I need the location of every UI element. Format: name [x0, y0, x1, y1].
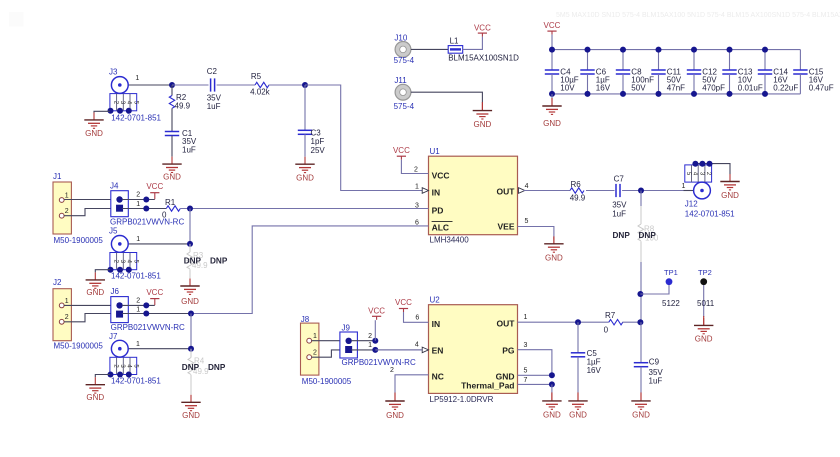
- ground (C5): [568, 393, 587, 409]
- junction J3 gnd pin: [126, 108, 132, 114]
- capacitor C15: [793, 70, 807, 74]
- svg-text:C5: C5: [587, 349, 598, 358]
- wire: [693, 50, 695, 70]
- wire: [312, 350, 340, 357]
- junction C4 top: [549, 47, 555, 53]
- resistor R2: [169, 96, 174, 109]
- svg-text:7: 7: [524, 377, 528, 384]
- wire: [269, 84, 305, 86]
- svg-text:VCC: VCC: [474, 23, 491, 32]
- svg-text:J5: J5: [109, 227, 118, 236]
- svg-text:LP5912-1.0DRVR: LP5912-1.0DRVR: [430, 395, 494, 404]
- ground (cap bank): [542, 99, 561, 115]
- ground (TP2): [694, 318, 713, 334]
- svg-text:GND: GND: [85, 129, 103, 138]
- wire: [305, 85, 422, 191]
- regulator U2 LP5912-1.0DRVR: [429, 305, 518, 394]
- wire: [122, 199, 155, 201]
- svg-text:3: 3: [524, 342, 528, 349]
- junction J12 p3: [699, 161, 705, 167]
- wire: [577, 322, 579, 353]
- svg-text:R1: R1: [165, 198, 176, 207]
- wire: [463, 37, 483, 50]
- svg-text:GND: GND: [86, 393, 104, 402]
- svg-text:DNP: DNP: [182, 363, 200, 372]
- power VCC (J9): [372, 316, 381, 320]
- wire: [518, 383, 552, 385]
- capacitor C13: [722, 70, 736, 74]
- svg-text:J12: J12: [685, 200, 698, 209]
- svg-text:J9: J9: [342, 324, 351, 333]
- wire: [411, 92, 483, 103]
- svg-text:4: 4: [525, 183, 529, 190]
- svg-text:1: 1: [135, 75, 139, 82]
- wire: [799, 50, 801, 70]
- wire: [586, 190, 615, 192]
- wire: [171, 108, 173, 131]
- capacitor C12: [687, 70, 701, 74]
- wire: [764, 50, 766, 70]
- svg-text:ALC: ALC: [432, 223, 449, 233]
- junction C6 bottom: [585, 91, 591, 97]
- wire: [401, 160, 428, 174]
- svg-text:GND: GND: [386, 411, 404, 420]
- wire: [577, 357, 579, 394]
- svg-text:VCC: VCC: [395, 298, 412, 307]
- svg-text:1uF: 1uF: [182, 146, 196, 155]
- svg-text:VCC: VCC: [432, 171, 450, 181]
- svg-text:GND: GND: [695, 334, 713, 343]
- svg-text:16V: 16V: [596, 84, 611, 93]
- wire: [518, 374, 552, 376]
- capacitor C14: [758, 70, 772, 74]
- wire: [171, 85, 173, 96]
- svg-text:2: 2: [414, 166, 418, 173]
- svg-text:EN: EN: [432, 346, 444, 356]
- ground (J3): [84, 112, 103, 128]
- wire J3 pin1 to node: [128, 84, 172, 86]
- wire: [64, 314, 111, 322]
- capacitor C7: [616, 184, 620, 197]
- svg-text:BLM15AX100SN1D: BLM15AX100SN1D: [448, 54, 519, 63]
- svg-text:1: 1: [524, 314, 528, 321]
- junction C11 bottom: [656, 91, 662, 97]
- wire: [374, 320, 376, 341]
- junction C13 bottom: [727, 91, 733, 97]
- svg-text:575-4: 575-4: [394, 56, 415, 65]
- wire: [95, 375, 110, 378]
- svg-text:J3: J3: [109, 67, 118, 76]
- svg-text:1: 1: [313, 333, 317, 340]
- svg-text:PG: PG: [502, 346, 515, 356]
- capacitor C6: [580, 70, 594, 74]
- resistor R7: [609, 320, 623, 325]
- junction J4 pin1 node: [143, 206, 149, 212]
- wire: [122, 208, 166, 210]
- svg-text:1uF: 1uF: [649, 377, 663, 386]
- svg-text:1: 1: [681, 183, 685, 190]
- junction J9 pin2 node: [372, 338, 378, 344]
- svg-text:M50-1900005: M50-1900005: [54, 341, 104, 350]
- svg-text:GND: GND: [163, 172, 181, 181]
- svg-text:OUT: OUT: [497, 187, 516, 197]
- ground (C9): [631, 393, 650, 409]
- svg-text:GND: GND: [545, 254, 563, 263]
- svg-text:LMH34400: LMH34400: [430, 235, 470, 244]
- svg-text:16V: 16V: [587, 366, 602, 375]
- junction output node: [638, 188, 644, 194]
- svg-text:DNP: DNP: [184, 257, 202, 266]
- wire: [128, 243, 190, 245]
- svg-text:5: 5: [525, 218, 529, 225]
- capacitor C9: [634, 363, 648, 367]
- svg-text:J7: J7: [109, 332, 118, 341]
- junction J7 gnd pin: [117, 372, 123, 378]
- svg-text:C2: C2: [207, 67, 218, 76]
- svg-text:2: 2: [65, 208, 69, 215]
- svg-text:U2: U2: [430, 295, 441, 304]
- svg-text:J10: J10: [394, 33, 407, 42]
- wire: [551, 98, 553, 106]
- svg-text:GRPB021VWVN-RC: GRPB021VWVN-RC: [342, 358, 416, 367]
- pin arrow U1 IN: [422, 188, 428, 194]
- wire: [640, 322, 642, 363]
- connector J8 (M50-1900005 header): [301, 323, 319, 375]
- svg-text:50V: 50V: [631, 84, 646, 93]
- svg-text:35V: 35V: [612, 201, 627, 210]
- junction J5 gnd pin: [108, 267, 114, 273]
- wire: [122, 313, 191, 315]
- wire: [180, 208, 428, 210]
- wire: [191, 226, 429, 314]
- connector J4 (header CH1 power select): [111, 191, 129, 217]
- junction J5 node: [187, 241, 193, 247]
- ground (J11): [473, 103, 492, 119]
- connector J7 (SMA CH2 aux): [110, 340, 137, 374]
- svg-text:35V: 35V: [182, 137, 197, 146]
- wire: [622, 50, 624, 70]
- wire: [128, 348, 191, 350]
- power VCC (J4): [150, 193, 159, 200]
- connector J5 (SMA CH1 aux): [110, 236, 137, 270]
- ALC overline: [432, 221, 453, 223]
- wire: [695, 164, 730, 175]
- svg-text:6: 6: [415, 315, 419, 322]
- svg-text:1pF: 1pF: [311, 137, 325, 146]
- wire: [622, 321, 641, 323]
- wire: [703, 285, 705, 317]
- svg-text:C7: C7: [614, 175, 625, 184]
- svg-text:GND: GND: [543, 119, 561, 128]
- svg-text:0: 0: [162, 210, 167, 219]
- svg-text:GND: GND: [181, 297, 199, 306]
- svg-text:GND: GND: [182, 411, 200, 420]
- wire: [552, 93, 800, 95]
- svg-text:GND: GND: [474, 120, 492, 129]
- wire: [64, 209, 111, 216]
- junction C14 bottom: [762, 91, 768, 97]
- svg-text:5011: 5011: [697, 299, 715, 308]
- svg-text:1: 1: [136, 341, 140, 348]
- wire: [64, 199, 111, 201]
- wire: [587, 50, 589, 70]
- junction J12 p4: [692, 161, 698, 167]
- connector J1 (M50-1900005 header): [53, 182, 71, 234]
- svg-text:VCC: VCC: [368, 307, 385, 316]
- svg-text:J8: J8: [301, 315, 310, 324]
- junction J6 pin2 node: [143, 302, 149, 308]
- connector J12 (SMA output): [685, 165, 712, 199]
- wire: [171, 136, 173, 157]
- svg-text:142-0701-851: 142-0701-851: [685, 209, 735, 218]
- svg-text:49.9: 49.9: [570, 194, 586, 203]
- wire: [375, 349, 422, 351]
- ground (U2 NC): [385, 394, 404, 410]
- svg-text:R7: R7: [605, 311, 616, 320]
- junction J5 gnd pin: [117, 267, 123, 273]
- wire: [640, 367, 642, 394]
- svg-text:142-0701-851: 142-0701-851: [111, 376, 161, 385]
- svg-text:GND: GND: [543, 411, 561, 420]
- junction J6 pin1 node: [143, 311, 149, 317]
- svg-text:VCC: VCC: [146, 288, 163, 297]
- wire: [411, 48, 448, 50]
- svg-text:0: 0: [604, 326, 609, 335]
- svg-text:R6: R6: [571, 180, 582, 189]
- junction PD node: [187, 206, 193, 212]
- wire: [524, 190, 571, 192]
- wire: [122, 304, 155, 306]
- junction J7 gnd pin: [108, 372, 114, 378]
- connector J6 (header CH2 power select): [111, 297, 129, 323]
- svg-text:5122: 5122: [662, 299, 680, 308]
- pin arrow U2 EN: [422, 347, 428, 353]
- wire: [172, 84, 209, 86]
- svg-text:142-0701-851: 142-0701-851: [111, 272, 161, 281]
- svg-text:0.47uF: 0.47uF: [809, 84, 834, 93]
- resistor R4 (DNP ghost): [190, 349, 192, 358]
- svg-text:IN: IN: [432, 319, 441, 329]
- svg-text:1: 1: [65, 192, 69, 199]
- op-amp U1 LMH34400: [429, 156, 518, 235]
- wire: [190, 314, 192, 349]
- svg-text:0.01uF: 0.01uF: [738, 84, 763, 93]
- svg-text:1: 1: [136, 201, 140, 208]
- svg-text:U1: U1: [430, 147, 441, 156]
- wire: [404, 312, 429, 322]
- wire: [94, 111, 110, 112]
- connector J10 (575-4 test point): [395, 42, 411, 58]
- svg-text:142-0701-851: 142-0701-851: [111, 113, 161, 122]
- svg-text:10V: 10V: [560, 84, 575, 93]
- capacitor C8: [616, 70, 630, 74]
- wire: [518, 227, 554, 239]
- svg-text:Thermal_Pad: Thermal_Pad: [461, 380, 514, 390]
- svg-text:5: 5: [524, 367, 528, 374]
- svg-text:GND: GND: [721, 191, 739, 200]
- wire: [640, 392, 642, 401]
- junction C6 top: [585, 47, 591, 53]
- capacitor C4: [545, 70, 559, 74]
- svg-text:2: 2: [313, 350, 317, 357]
- svg-text:GRPB021VWVN-RC: GRPB021VWVN-RC: [111, 323, 185, 332]
- svg-text:J1: J1: [53, 172, 62, 181]
- pin arrow U1 OUT: [519, 188, 525, 194]
- junction TP1 node: [637, 291, 643, 297]
- svg-text:M50-1900005: M50-1900005: [54, 236, 104, 245]
- svg-text:DNP: DNP: [613, 231, 631, 240]
- inductor L1 (ferrite bead): [448, 46, 463, 54]
- wire: [552, 49, 800, 51]
- svg-text:J2: J2: [53, 278, 62, 287]
- wire: [577, 392, 579, 401]
- svg-text:2: 2: [65, 314, 69, 321]
- svg-text:R5: R5: [251, 72, 262, 81]
- capacitor C11: [651, 70, 665, 74]
- ground (U2 GND): [542, 393, 561, 409]
- junction J3 gnd pin: [108, 108, 114, 114]
- junction J3 gnd pin: [117, 108, 123, 114]
- test point TP1: [666, 278, 673, 285]
- capacitor C1: [165, 132, 179, 136]
- connector J2 (M50-1900005 header): [53, 289, 71, 341]
- wire: [351, 349, 422, 351]
- svg-text:TP2: TP2: [698, 268, 712, 277]
- svg-text:1: 1: [136, 307, 140, 314]
- svg-text:VEE: VEE: [497, 222, 514, 232]
- power VCC (J6): [150, 299, 159, 306]
- resistor R3 (DNP ghost): [189, 244, 191, 252]
- svg-text:J6: J6: [111, 287, 120, 296]
- wire: [518, 321, 609, 323]
- wire: [622, 74, 624, 94]
- svg-text:DNP: DNP: [210, 257, 228, 266]
- svg-text:GND: GND: [632, 411, 650, 420]
- svg-text:DNP: DNP: [208, 363, 226, 372]
- svg-text:OUT: OUT: [497, 319, 516, 329]
- svg-text:GND: GND: [569, 411, 587, 420]
- resistor R8 (DNP ghost): [640, 206, 642, 224]
- junction J7 gnd pin: [126, 372, 132, 378]
- wire: [551, 74, 553, 94]
- wire: [799, 74, 801, 94]
- wire: [95, 270, 110, 273]
- junction PG/GND node: [549, 372, 555, 378]
- svg-text:1: 1: [415, 184, 419, 191]
- connector J11 (575-4 test point): [395, 84, 411, 100]
- power VCC (L1): [478, 33, 487, 37]
- resistor R1: [166, 206, 180, 211]
- wire: [553, 238, 555, 244]
- svg-text:1: 1: [368, 342, 372, 349]
- wire: [622, 190, 683, 192]
- svg-text:1: 1: [65, 298, 69, 305]
- wire: [551, 384, 553, 393]
- junction C14 top: [762, 47, 768, 53]
- svg-text:470pF: 470pF: [702, 84, 725, 93]
- svg-text:C9: C9: [649, 357, 660, 366]
- svg-text:NC: NC: [432, 372, 444, 382]
- wire: [395, 375, 429, 394]
- svg-text:VCC: VCC: [393, 146, 410, 155]
- ground (J12): [720, 174, 739, 190]
- svg-text:4: 4: [415, 341, 419, 348]
- ground (C1): [162, 157, 181, 173]
- ground (J5): [86, 272, 105, 288]
- wire: [551, 392, 553, 401]
- svg-text:GRPB021VWVN-RC: GRPB021VWVN-RC: [110, 218, 184, 227]
- svg-text:M50-1900005: M50-1900005: [302, 377, 352, 386]
- junction C11 top: [656, 47, 662, 53]
- junction C8 top: [620, 47, 626, 53]
- svg-text:1: 1: [136, 236, 140, 243]
- junction J12 p2: [707, 161, 713, 167]
- svg-text:1uF: 1uF: [207, 102, 221, 111]
- wire: [312, 340, 340, 342]
- wire: [189, 209, 191, 244]
- wire: [481, 102, 483, 111]
- junction C5 node: [575, 319, 581, 325]
- svg-text:PD: PD: [432, 206, 444, 216]
- junction J9 pin1 node / EN: [372, 347, 378, 353]
- wire: [640, 191, 642, 207]
- wire: [729, 74, 731, 94]
- wire: [551, 50, 553, 70]
- wire: [684, 190, 694, 192]
- capacitor C2: [211, 78, 215, 91]
- svg-text:VCC: VCC: [146, 182, 163, 191]
- ground (R4): [181, 395, 200, 411]
- wire: [729, 50, 731, 70]
- svg-text:49.9: 49.9: [175, 101, 191, 110]
- wire: [304, 85, 306, 130]
- wire: [764, 74, 766, 94]
- wire: [587, 74, 589, 94]
- junction Thermal node: [549, 381, 555, 387]
- wire: [351, 340, 375, 342]
- test point TP2: [700, 278, 707, 285]
- svg-text:4.02k: 4.02k: [250, 87, 271, 96]
- wire: [64, 304, 111, 306]
- power VCC (U1): [397, 156, 406, 160]
- capacitor C3: [298, 130, 312, 134]
- svg-text:1uF: 1uF: [612, 209, 626, 218]
- faint logo box: [9, 12, 24, 27]
- svg-text:J11: J11: [394, 76, 407, 85]
- junction node C3: [302, 82, 308, 88]
- ground (U1 VEE): [544, 236, 563, 252]
- svg-text:IN: IN: [432, 188, 441, 198]
- wire: [304, 134, 306, 156]
- svg-text:25V: 25V: [311, 146, 326, 155]
- resistor R6: [570, 188, 584, 193]
- svg-text:2: 2: [136, 298, 140, 305]
- junction C9 node: [637, 319, 643, 325]
- svg-text:DNP: DNP: [639, 231, 657, 240]
- svg-text:GND: GND: [86, 288, 104, 297]
- svg-text:L1: L1: [450, 37, 459, 46]
- junction node after J3: [169, 82, 175, 88]
- ground (J7): [86, 377, 105, 393]
- junction C4 bottom: [549, 91, 555, 97]
- svg-text:5M5 MAX10D SN1D 575-4 BLM15AX1: 5M5 MAX10D SN1D 575-4 BLM15AX100 5N1D 57…: [556, 12, 840, 19]
- svg-text:47nF: 47nF: [667, 84, 685, 93]
- wire: [693, 74, 695, 94]
- connector J9 (header EN select): [340, 332, 358, 358]
- wire: [551, 94, 553, 99]
- resistor R5: [255, 82, 269, 87]
- svg-text:VCC: VCC: [544, 21, 561, 30]
